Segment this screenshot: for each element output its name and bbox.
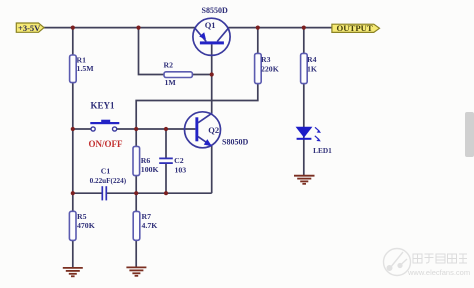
svg-text:R7: R7 [142, 212, 152, 221]
svg-text:470K: 470K [77, 221, 95, 230]
wire bottom rail right of C1 to Q2 emitter [107, 192, 212, 194]
svg-text:Q1: Q1 [205, 20, 216, 30]
resistor R7 [133, 211, 140, 240]
svg-text:220K: 220K [261, 65, 279, 74]
svg-text:S8050D: S8050D [222, 138, 248, 147]
ground (below R5) [63, 268, 83, 276]
svg-text:ON/OFF: ON/OFF [89, 139, 123, 149]
wire Q2 emitter vertical down to bottom rail [211, 146, 213, 193]
wire R6/R7 vertical column [135, 129, 137, 268]
svg-text:4.7K: 4.7K [142, 221, 158, 230]
capacitor C1 (series in bottom rail) [102, 186, 106, 200]
svg-text:Q2: Q2 [208, 125, 219, 135]
wire R2 drop from top rail [139, 28, 165, 75]
wire R2 right lead to Q1 base node [192, 74, 211, 76]
svg-text:R3: R3 [261, 55, 271, 64]
node junction dots [71, 26, 306, 196]
svg-text:www.elecfans.com: www.elecfans.com [407, 268, 470, 277]
capacitor C2 [159, 158, 173, 163]
watermark characters [413, 254, 467, 263]
transistor Q2 S8050D (NPN) [185, 112, 221, 148]
svg-text:LED1: LED1 [313, 146, 332, 155]
wire top rail left (+3-5V to Q1 emitter) [44, 27, 196, 29]
resistor R6 [133, 146, 140, 175]
svg-text:KEY1: KEY1 [91, 101, 116, 111]
scrollbar remnant at right edge [465, 112, 474, 157]
transistor Q1 S8550D (PNP) [193, 18, 230, 55]
wire switch left lead [73, 128, 91, 130]
wire R4/LED vertical column [303, 28, 305, 176]
wire C2 bottom lead [165, 164, 167, 194]
wire Q1 base / Q2 collector vertical [211, 44, 213, 113]
svg-text:R2: R2 [164, 60, 174, 69]
wire R3 top lead [257, 28, 259, 54]
ground (below LED1) [294, 176, 315, 184]
resistor R2 [164, 72, 192, 78]
wire bottom rail left of C1 [73, 192, 102, 194]
ground (below R7) [126, 267, 146, 275]
wire R3 bottom to feedback line down to switch line [136, 84, 258, 129]
wire vertical R1/KEY1/R5 column [72, 28, 74, 269]
watermark logo [384, 249, 411, 276]
svg-text:R4: R4 [307, 55, 317, 64]
svg-text:100K: 100K [141, 165, 159, 174]
LED LED1 [296, 127, 321, 142]
switch KEY1 (pushbutton) [90, 120, 119, 131]
svg-text:+3-5V: +3-5V [18, 23, 41, 33]
resistor R1 [70, 55, 77, 83]
resistor R4 [301, 53, 308, 83]
svg-text:S8550D: S8550D [202, 6, 228, 15]
power flag +3-5V [16, 23, 44, 33]
svg-text:1M: 1M [165, 78, 177, 87]
svg-text:C1: C1 [101, 167, 111, 176]
svg-text:0.22uF(224): 0.22uF(224) [90, 177, 127, 185]
resistor R3 [255, 53, 262, 83]
svg-text:OUTPUT: OUTPUT [337, 23, 373, 33]
svg-text:1.5M: 1.5M [77, 64, 95, 73]
svg-text:103: 103 [175, 165, 187, 174]
svg-text:R6: R6 [141, 156, 151, 165]
resistor R5 [69, 211, 76, 240]
svg-text:R5: R5 [77, 212, 87, 221]
svg-text:R1: R1 [77, 55, 87, 64]
wire C2 top lead [165, 129, 167, 158]
wire switch right lead to Q2 base [117, 128, 196, 130]
svg-text:1K: 1K [307, 65, 317, 74]
svg-text:C2: C2 [174, 156, 184, 165]
wire top rail right (Q1 collector to OUTPUT) [228, 27, 332, 29]
port flag OUTPUT [332, 23, 380, 33]
